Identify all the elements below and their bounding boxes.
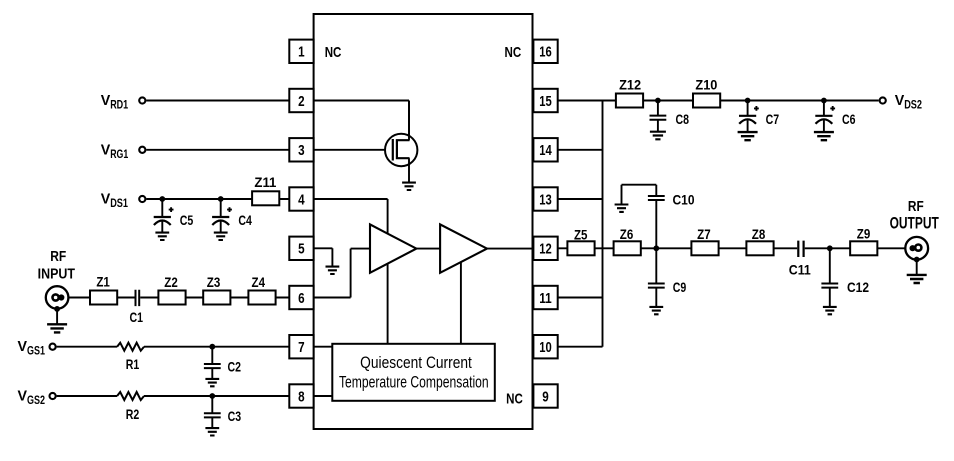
svg-text:Temperature Compensation: Temperature Compensation xyxy=(339,372,489,391)
svg-text:R2: R2 xyxy=(126,406,140,422)
svg-text:6: 6 xyxy=(298,291,305,307)
svg-text:C4: C4 xyxy=(238,212,252,228)
svg-text:GS1: GS1 xyxy=(27,346,45,358)
svg-text:V: V xyxy=(101,142,111,158)
svg-text:RG1: RG1 xyxy=(110,149,128,161)
svg-text:GS2: GS2 xyxy=(27,395,45,407)
svg-text:C9: C9 xyxy=(673,279,687,295)
svg-text:C12: C12 xyxy=(847,279,869,295)
svg-text:RF: RF xyxy=(50,248,66,265)
svg-text:R1: R1 xyxy=(126,356,140,372)
svg-text:C3: C3 xyxy=(228,408,242,424)
svg-text:DS1: DS1 xyxy=(110,198,128,210)
svg-text:V: V xyxy=(18,389,28,405)
svg-text:14: 14 xyxy=(539,143,552,159)
svg-text:Z5: Z5 xyxy=(574,227,588,243)
svg-text:OUTPUT: OUTPUT xyxy=(890,213,940,232)
svg-text:5: 5 xyxy=(298,242,305,258)
svg-text:15: 15 xyxy=(539,94,552,110)
svg-text:Z4: Z4 xyxy=(252,274,266,290)
svg-text:NC: NC xyxy=(325,44,342,61)
svg-text:DS2: DS2 xyxy=(904,100,922,112)
svg-text:V: V xyxy=(101,93,111,109)
svg-text:11: 11 xyxy=(539,291,552,307)
svg-text:INPUT: INPUT xyxy=(38,266,75,283)
svg-text:Z10: Z10 xyxy=(695,76,717,92)
svg-text:8: 8 xyxy=(298,389,305,405)
svg-text:12: 12 xyxy=(539,242,552,258)
svg-text:2: 2 xyxy=(298,94,305,110)
svg-text:9: 9 xyxy=(542,389,549,405)
svg-text:4: 4 xyxy=(298,192,305,208)
svg-text:C1: C1 xyxy=(130,309,144,325)
svg-text:1: 1 xyxy=(298,45,305,61)
svg-text:NC: NC xyxy=(506,391,523,408)
svg-text:16: 16 xyxy=(539,45,552,61)
svg-text:V: V xyxy=(18,339,28,355)
svg-text:C6: C6 xyxy=(842,111,856,127)
svg-text:C8: C8 xyxy=(676,111,690,127)
svg-text:NC: NC xyxy=(505,44,522,61)
svg-text:3: 3 xyxy=(298,143,305,159)
svg-text:C5: C5 xyxy=(180,212,194,228)
svg-text:V: V xyxy=(895,93,905,109)
svg-text:Z6: Z6 xyxy=(620,226,634,242)
svg-text:RD1: RD1 xyxy=(110,100,128,112)
svg-text:Z8: Z8 xyxy=(752,226,766,242)
svg-text:10: 10 xyxy=(539,340,552,356)
svg-text:7: 7 xyxy=(298,340,305,356)
svg-text:Z11: Z11 xyxy=(254,174,276,190)
svg-text:V: V xyxy=(101,192,111,208)
svg-text:Z2: Z2 xyxy=(164,274,178,290)
svg-text:13: 13 xyxy=(539,192,552,208)
svg-text:Z1: Z1 xyxy=(96,274,110,290)
svg-text:C11: C11 xyxy=(789,262,811,278)
svg-text:C7: C7 xyxy=(766,111,780,127)
svg-text:C2: C2 xyxy=(228,358,242,374)
svg-text:Z3: Z3 xyxy=(207,274,221,290)
svg-text:RF: RF xyxy=(908,198,924,215)
svg-text:Z9: Z9 xyxy=(857,225,871,241)
svg-text:Z12: Z12 xyxy=(619,76,641,92)
svg-text:C10: C10 xyxy=(673,192,695,208)
svg-text:Quiescent Current: Quiescent Current xyxy=(360,353,472,372)
svg-text:Z7: Z7 xyxy=(697,226,711,242)
